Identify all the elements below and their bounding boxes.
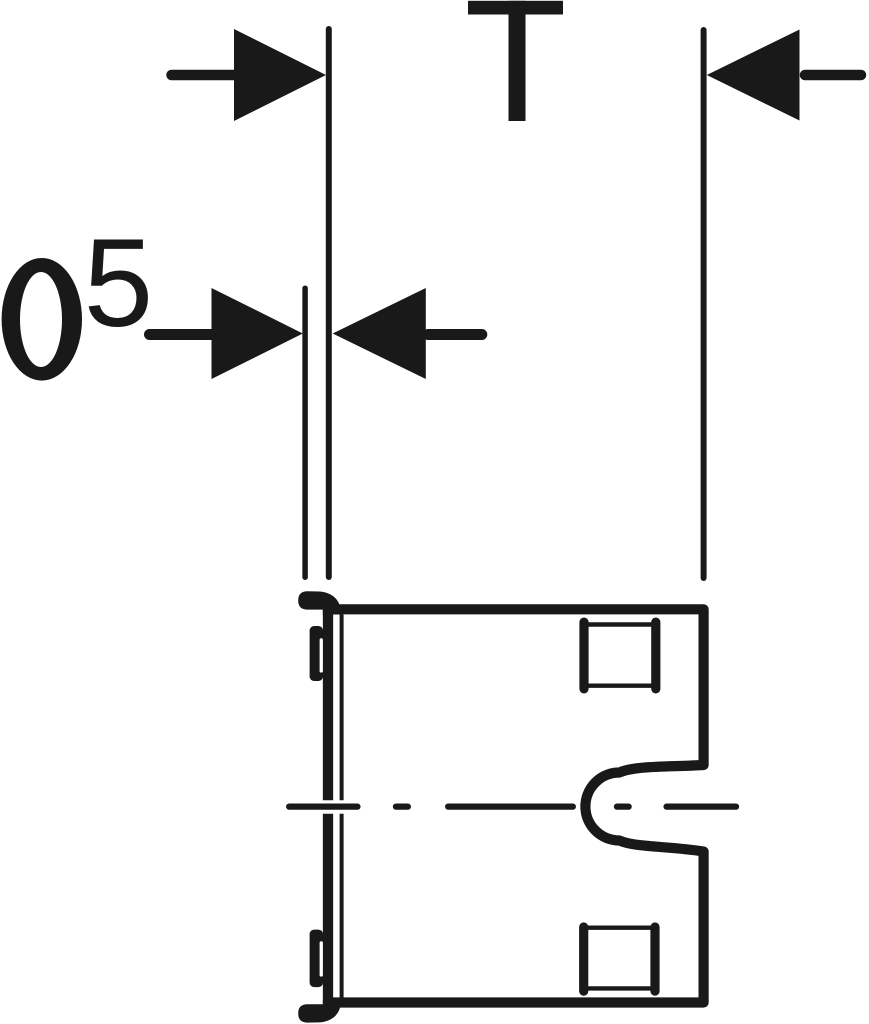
- arrowhead top-left: [234, 29, 326, 121]
- dimension line top-right: [805, 70, 861, 81]
- label T (pipe dimension letter): [468, 1, 563, 121]
- top hook tab: [298, 591, 341, 614]
- extension line right: [701, 30, 707, 578]
- arrowhead 0.5 right-pointing: [212, 288, 303, 379]
- extension line left thin (0.5 offset): [302, 288, 308, 577]
- top boss bottom line: [584, 684, 656, 688]
- dimension line top-left: [172, 70, 238, 81]
- bottom boss bottom line: [584, 986, 655, 990]
- extension line left main: [326, 29, 332, 577]
- top boss right bar: [651, 622, 660, 689]
- label 0 (drawn as ellipse ring): [2, 258, 82, 381]
- inner face line upper segment: [340, 615, 344, 801]
- arrowhead top-right: [707, 30, 800, 121]
- bottom hook tab: [298, 999, 341, 1022]
- part left edge upper segment: [323, 600, 333, 800]
- dimension line 0.5 left: [150, 329, 214, 340]
- bottom clip slot (white): [320, 941, 323, 976]
- top boss left bar: [579, 622, 588, 689]
- top clip slot (white): [320, 638, 323, 672]
- top clip body: [310, 626, 323, 681]
- top boss top line: [584, 622, 656, 626]
- bottom boss top line: [584, 926, 655, 930]
- part outline: top edge, right edge, notch, bottom edge: [333, 609, 704, 1002]
- svg-text:5: 5: [84, 214, 154, 353]
- arrowhead 0.5 left-pointing: [333, 288, 426, 379]
- bottom clip body: [310, 930, 323, 988]
- centerline dash 3: [448, 803, 573, 809]
- centerline dot dash 4: [617, 803, 629, 809]
- bottom boss right bar: [650, 927, 659, 991]
- inner face line lower segment: [340, 814, 344, 999]
- dimension line 0.5 right: [428, 329, 482, 340]
- part left edge lower segment: [323, 814, 333, 1003]
- centerline dash 5: [667, 803, 736, 809]
- centerline dash 1: [289, 803, 357, 809]
- bottom boss left bar: [579, 927, 588, 991]
- centerline dot dash 2: [396, 803, 408, 809]
